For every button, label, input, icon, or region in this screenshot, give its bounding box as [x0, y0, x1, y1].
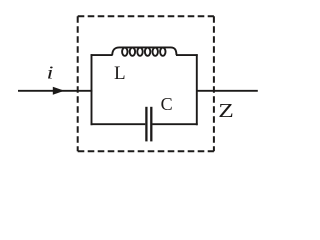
arrowhead for current i: [53, 87, 65, 95]
wire: right vertical of LC loop: [196, 54, 198, 125]
svg-text:Z: Z: [218, 99, 234, 121]
wire: input lead: [18, 90, 92, 92]
capacitor C plates: [146, 107, 151, 142]
dashed network boundary box: [78, 16, 214, 151]
wire: top-left segment to inductor: [91, 54, 113, 56]
inductor L coil: [112, 47, 176, 55]
svg-text:L: L: [114, 63, 126, 84]
svg-text:C: C: [161, 94, 173, 114]
wire: top-right segment from inductor: [176, 54, 198, 56]
wire: output lead: [197, 90, 258, 92]
wire: left vertical of LC loop: [91, 54, 93, 125]
wire: bottom-right segment from capacitor: [152, 123, 197, 125]
wire: bottom-left segment to capacitor: [91, 123, 146, 125]
svg-text:i: i: [47, 63, 54, 83]
